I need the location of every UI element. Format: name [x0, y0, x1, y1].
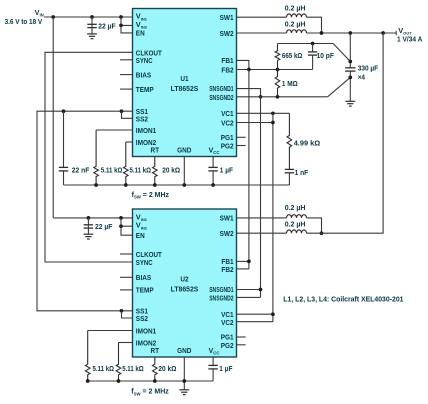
resistor 1M feedback bottom — [275, 70, 280, 97]
wire U2 TEMP stub — [120, 289, 133, 291]
wire U2 SNSGND2 to bus — [237, 296, 261, 298]
svg-text:VC1: VC1 — [221, 109, 234, 118]
resistor 665k feedback — [275, 44, 280, 70]
wire U1 VC1 line to 4.99k — [237, 112, 290, 114]
wire U2 VC1 to bus — [237, 313, 273, 315]
wire U2 PG2 stub — [237, 344, 246, 346]
svg-text:20 kΩ: 20 kΩ — [162, 166, 180, 175]
svg-text:fSW = 2 MHz: fSW = 2 MHz — [132, 192, 170, 200]
ground below C1 — [87, 33, 97, 35]
svg-text:5.11 kΩ: 5.11 kΩ — [122, 364, 144, 373]
svg-text:fSW = 2 MHz: fSW = 2 MHz — [131, 389, 169, 397]
svg-text:0.2 µH: 0.2 µH — [285, 19, 306, 28]
svg-text:FB1: FB1 — [221, 56, 233, 65]
svg-text:SS2: SS2 — [136, 314, 148, 323]
wire VIN2 / EN feed U1 — [121, 17, 133, 25]
svg-text:SNSGND1: SNSGND1 — [209, 84, 233, 93]
svg-text:SS2: SS2 — [136, 115, 148, 124]
junction 1M bottom — [276, 95, 280, 99]
capacitor 330uF x4 output — [349, 33, 351, 68]
wire U1 SYNC stub — [120, 59, 133, 61]
wire U1 SS2 link — [122, 111, 133, 118]
svg-text:U1: U1 — [180, 74, 188, 83]
resistor 5.11k on U2 IMON2 — [119, 342, 133, 344]
svg-text:GND: GND — [177, 346, 192, 355]
inductor L4 0.2uH — [237, 232, 287, 234]
svg-text:SW2: SW2 — [220, 29, 234, 38]
wire U1 SNSGND2 line — [237, 96, 328, 98]
junction VIN bus tap — [51, 15, 55, 19]
junction 330uF branch — [348, 31, 352, 35]
svg-text:0.2 µH: 0.2 µH — [285, 219, 306, 228]
wire U2 BIAS stub — [120, 276, 133, 278]
svg-text:SW2: SW2 — [220, 229, 234, 238]
wire U2 VIN2 / EN feed — [121, 218, 133, 226]
svg-text:1 µF: 1 µF — [219, 364, 232, 373]
svg-text:22 µF: 22 µF — [98, 21, 116, 30]
svg-text:LT8652S: LT8652S — [171, 84, 199, 93]
svg-text:SYNC: SYNC — [136, 56, 153, 65]
wire U1 PG1 stub — [237, 136, 246, 138]
svg-text:PG2: PG2 — [221, 341, 234, 350]
wire U2 PG1 stub — [237, 336, 246, 338]
wire U2 FB1 to bus — [237, 260, 249, 262]
svg-text:TEMP: TEMP — [136, 85, 154, 94]
svg-text:1 nF: 1 nF — [295, 168, 309, 177]
junction 22uF C1 tap — [90, 15, 94, 19]
junction VC bus top — [271, 111, 275, 115]
svg-text:IMON1: IMON1 — [136, 326, 156, 335]
wire L3 out to SW2 node — [307, 218, 322, 233]
svg-text:22 µF: 22 µF — [95, 222, 113, 231]
svg-text:4.99 kΩ: 4.99 kΩ — [294, 138, 321, 147]
svg-text:665 kΩ: 665 kΩ — [282, 51, 303, 60]
svg-text:PG1: PG1 — [221, 133, 234, 142]
svg-text:L1, L2, L3, L4: Coilcraft XEL4: L1, L2, L3, L4: Coilcraft XEL4030-201 — [283, 294, 403, 303]
wire U1 FB1 to FB bus — [237, 60, 249, 69]
capacitor 1uF on U2 VCC — [212, 357, 214, 365]
wire U2 SS2 link — [122, 311, 133, 318]
inductor L3 0.2uH — [237, 217, 287, 219]
capacitor 1uF on U1 VCC — [212, 157, 214, 168]
capacitor 10pF feedforward — [312, 44, 314, 52]
resistor 20k on U2 RT — [153, 357, 158, 381]
capacitor C1 22uF input U1 — [91, 17, 93, 24]
svg-text:1 V/34 A: 1 V/34 A — [397, 35, 423, 44]
svg-text:EN: EN — [136, 231, 145, 240]
wire U1 GND to rail — [183, 157, 185, 186]
ground below U2 GND — [179, 389, 189, 391]
node VOUT terminal — [395, 31, 397, 35]
svg-text:SW1: SW1 — [220, 214, 234, 223]
svg-text:3.6 V to 18 V: 3.6 V to 18 V — [5, 17, 43, 26]
junction U2 VIN1/VIN2 tap — [119, 216, 123, 220]
svg-text:VC2: VC2 — [221, 119, 234, 128]
junction SNSGND bus — [259, 95, 263, 99]
junction SW merge U1 — [320, 31, 324, 35]
svg-text:1 MΩ: 1 MΩ — [282, 79, 298, 88]
wire SS1/SS2 tie bus U1 to U2 — [37, 111, 133, 311]
junction U2 SS2 tap — [120, 309, 124, 313]
wire U1 FB2 line — [237, 69, 313, 71]
wire L1 out to SW2 node — [307, 17, 322, 33]
svg-text:330 µF: 330 µF — [358, 63, 379, 72]
svg-text:0.2 µH: 0.2 µH — [285, 203, 306, 212]
junction 10pF top — [311, 42, 315, 46]
wire VIN rail to U2 — [53, 217, 132, 219]
resistor 5.11k on U1 IMON2 — [126, 141, 133, 143]
wire U2 FB2 to bus — [237, 268, 249, 270]
junction SW merge U2 — [320, 231, 324, 235]
wire VC bus U1 to U2 — [272, 113, 274, 321]
wire U1 BIAS stub — [120, 74, 133, 76]
wire SNSGND bus U1 to U2 — [260, 97, 262, 298]
ground below 330uF — [345, 100, 355, 102]
svg-text:EN: EN — [136, 29, 145, 38]
wire U1 VC2 to bus — [237, 122, 273, 124]
svg-text:5.11 kΩ: 5.11 kΩ — [101, 166, 123, 175]
junction U2 branch — [381, 31, 385, 35]
resistor 20k on U1 RT — [153, 157, 158, 186]
svg-text:LT8652S: LT8652S — [171, 285, 199, 294]
svg-text:×4: ×4 — [358, 73, 366, 82]
junction rail dots U2 — [86, 379, 90, 383]
resistor 5.11k on U1 IMON1 — [96, 129, 132, 131]
wire VIN rail to U1 — [44, 16, 133, 18]
svg-text:BIAS: BIAS — [136, 273, 151, 282]
svg-text:TEMP: TEMP — [136, 286, 154, 295]
svg-text:1 µF: 1 µF — [220, 166, 233, 175]
capacitor 22nF soft-start — [63, 111, 65, 167]
svg-text:BIAS: BIAS — [136, 70, 151, 79]
IC U1 LT8652S buck regulator — [133, 9, 237, 157]
svg-text:22 nF: 22 nF — [72, 166, 90, 175]
junction U1 SS2 tap — [120, 109, 124, 113]
capacitor 1nF compensation — [285, 168, 294, 170]
IC U2 LT8652S buck regulator — [133, 209, 237, 357]
ground below C2 — [84, 233, 94, 235]
wire U1 SNSGND1 to bus — [237, 89, 261, 97]
junction rail dots U1 — [94, 183, 98, 187]
junction 22nF tap on SS line — [62, 109, 66, 113]
wire U1 TEMP stub — [120, 88, 133, 90]
wire U1 PG2 stub — [237, 145, 246, 147]
wire 665k/10pF top rail — [278, 43, 334, 45]
svg-text:RT: RT — [151, 346, 160, 355]
wire U2 GND to rail and ground — [183, 357, 185, 390]
svg-text:VC2: VC2 — [221, 318, 234, 327]
svg-text:FB2: FB2 — [221, 66, 233, 75]
wire U2 output up to VOUT — [307, 33, 384, 233]
svg-text:IMON1: IMON1 — [136, 126, 156, 135]
svg-text:SNSGND2: SNSGND2 — [209, 93, 233, 102]
svg-text:20 kΩ: 20 kΩ — [158, 364, 176, 373]
wire U2 SNSGND1 to bus — [237, 289, 261, 291]
wire diagonal top rail to 330uF — [333, 44, 350, 62]
svg-text:GND: GND — [177, 145, 192, 154]
inductor L2 0.2uH — [237, 32, 287, 34]
svg-text:5.11 kΩ: 5.11 kΩ — [130, 166, 152, 175]
svg-text:U2: U2 — [180, 274, 188, 283]
svg-text:10 pF: 10 pF — [317, 51, 335, 60]
wire VIN vertical bus to U2 — [52, 17, 54, 218]
wire U2 VC2 to bus — [237, 321, 273, 323]
wire U1 CLKOUT to U2 SYNC — [45, 52, 133, 262]
wire FB bus U1 to U2 — [248, 70, 250, 269]
svg-text:5.11 kΩ: 5.11 kΩ — [93, 364, 115, 373]
resistor 4.99k compensation — [287, 113, 292, 169]
svg-text:0.2 µH: 0.2 µH — [285, 4, 306, 13]
inductor L1 0.2uH — [237, 16, 287, 18]
svg-text:SYNC: SYNC — [136, 258, 153, 267]
svg-text:RT: RT — [151, 145, 160, 154]
junction VIN1/VIN2 tap — [119, 15, 123, 19]
wire U2 bottom ground rail — [88, 380, 213, 382]
junction FB bus — [247, 68, 251, 72]
svg-text:SW1: SW1 — [220, 13, 234, 22]
wire U2 CLKOUT stub — [120, 253, 133, 255]
junction 665k node — [276, 68, 280, 72]
resistor 5.11k on U2 IMON1 — [88, 330, 133, 332]
svg-text:FB2: FB2 — [221, 265, 233, 274]
capacitor C2 22uF input U2 — [87, 218, 89, 225]
wire diagonal SNSGND to 330uF bottom — [328, 77, 351, 96]
svg-text:SNSGND2: SNSGND2 — [209, 294, 233, 303]
wire VOUT line — [307, 32, 397, 34]
svg-text:PG2: PG2 — [221, 142, 234, 151]
junction 22uF C2 tap — [87, 216, 91, 220]
wire U1 bottom ground rail — [64, 184, 290, 186]
